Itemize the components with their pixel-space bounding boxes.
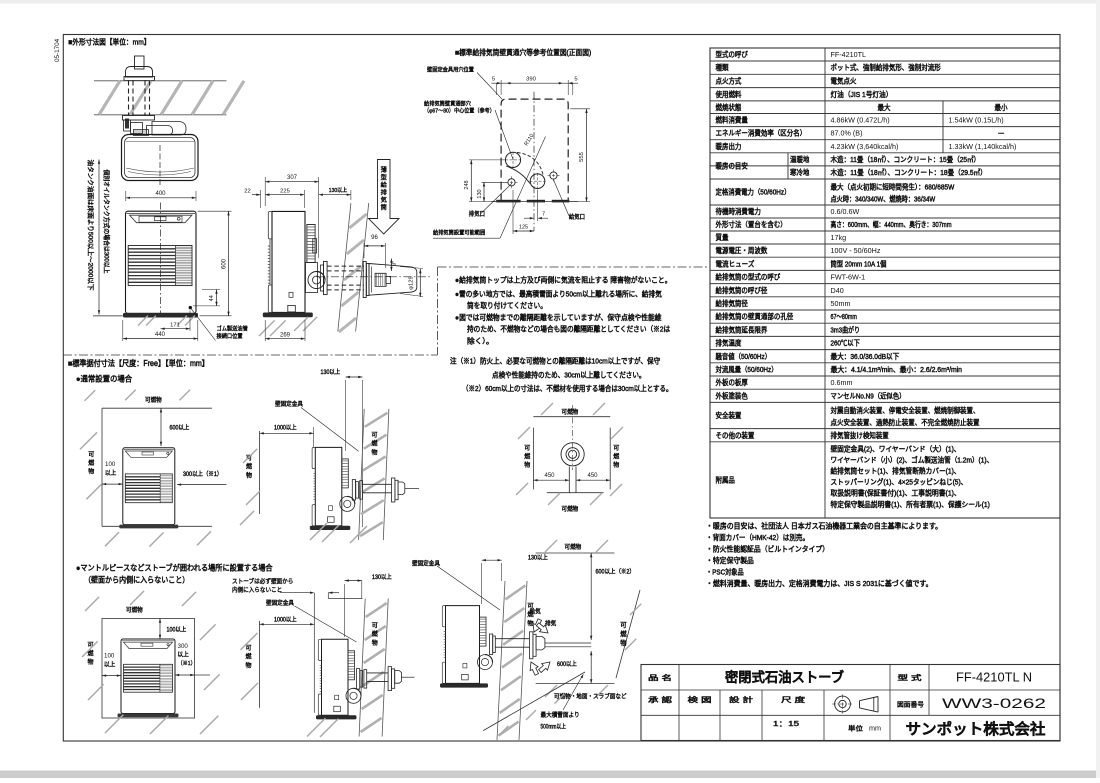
svg-text:品 名: 品 名 [648, 673, 672, 682]
svg-text:171: 171 [170, 323, 180, 329]
svg-text:点火方式: 点火方式 [716, 77, 742, 86]
svg-text:点検や性能維持のため、30cm以上離してください。: 点検や性能維持のため、30cm以上離してください。 [492, 371, 646, 380]
svg-text:・特定保守製品: ・特定保守製品 [706, 555, 754, 565]
svg-text:7: 7 [542, 212, 545, 218]
svg-text:ストーブは必ず壁面から: ストーブは必ず壁面から [232, 578, 293, 586]
svg-text:物: 物 [372, 639, 378, 647]
svg-text:300以上（※1）: 300以上（※1） [183, 470, 222, 478]
svg-text:以上: 以上 [105, 469, 116, 477]
svg-text:燃: 燃 [88, 459, 94, 467]
svg-text:承 認: 承 認 [648, 695, 672, 704]
svg-text:検 図: 検 図 [688, 695, 712, 704]
svg-text:最大（点火初期に短時間発生）：680/685W: 最大（点火初期に短時間発生）：680/685W [831, 182, 955, 191]
svg-text:可: 可 [245, 645, 251, 652]
svg-text:給排気筒設置可能範囲: 給排気筒設置可能範囲 [433, 229, 485, 237]
svg-text:●図では可燃物までの離隔距離を示していますが、保守点検や性能: ●図では可燃物までの離隔距離を示していますが、保守点検や性能維 [455, 313, 662, 322]
svg-text:FF-4210TL N: FF-4210TL N [956, 669, 1032, 684]
svg-text:130以上: 130以上 [321, 368, 341, 376]
svg-text:燃料消費量: 燃料消費量 [716, 116, 748, 125]
svg-text:●給排気筒トップは上方及び両側に気流を阻止する 障害物がない: ●給排気筒トップは上方及び両側に気流を阻止する 障害物がないこと。 [455, 276, 672, 285]
svg-text:燃焼状態: 燃焼状態 [716, 103, 742, 112]
svg-text:除く）。: 除く）。 [467, 337, 494, 346]
svg-text:・防火性能認証品（ビルトインタイプ）: ・防火性能認証品（ビルトインタイプ） [706, 544, 829, 554]
svg-text:壁固定金具: 壁固定金具 [275, 400, 303, 408]
svg-text:定格消費電力（50/60Hz）: 定格消費電力（50/60Hz） [716, 188, 791, 197]
svg-text:100以上: 100以上 [167, 626, 187, 634]
svg-text:125: 125 [519, 225, 528, 231]
svg-text:67〜80mm: 67〜80mm [831, 312, 857, 321]
svg-text:最大積雪面より: 最大積雪面より [541, 711, 580, 719]
svg-text:1.33kW (1,140kcal/h): 1.33kW (1,140kcal/h) [949, 142, 1017, 151]
svg-text:外板塗装色: 外板塗装色 [716, 391, 748, 400]
svg-text:100: 100 [104, 653, 115, 660]
svg-text:物: 物 [245, 661, 251, 669]
svg-text:燃: 燃 [524, 453, 530, 461]
svg-text:ゴム製送油管: ゴム製送油管 [217, 325, 248, 333]
svg-text:給排気筒延長限界: 給排気筒延長限界 [716, 325, 768, 334]
svg-text:D40: D40 [831, 286, 844, 295]
svg-text:筒を取り付けてください。: 筒を取り付けてください。 [467, 301, 547, 310]
svg-text:電流ヒューズ: 電流ヒューズ [716, 259, 755, 268]
svg-text:可: 可 [620, 621, 627, 629]
svg-text:WW3-0262: WW3-0262 [942, 696, 1046, 711]
svg-text:最大：36.0/36.0dB以下: 最大：36.0/36.0dB以下 [831, 352, 900, 361]
svg-text:木造：11畳（18㎡）、コンクリート：15畳（25㎡）: 木造：11畳（18㎡）、コンクリート：15畳（25㎡） [831, 155, 981, 164]
svg-text:・PSC対象品: ・PSC対象品 [706, 567, 744, 577]
svg-text:22: 22 [244, 189, 250, 195]
svg-text:物: 物 [613, 461, 619, 469]
svg-text:暖房出力: 暖房出力 [716, 142, 742, 151]
svg-text:燃: 燃 [613, 453, 619, 461]
svg-text:外板の板厚: 外板の板厚 [716, 378, 748, 387]
svg-text:600以上: 600以上 [557, 660, 577, 668]
svg-text:物: 物 [620, 638, 627, 647]
svg-text:450: 450 [544, 473, 555, 479]
svg-text:給排気筒径: 給排気筒径 [716, 299, 748, 308]
svg-text:100: 100 [105, 461, 116, 468]
svg-text:FWT-6W-1: FWT-6W-1 [831, 273, 866, 282]
svg-text:0.6/0.6W: 0.6/0.6W [831, 207, 860, 216]
svg-text:排気口: 排気口 [469, 210, 485, 218]
svg-text:以上: 以上 [178, 651, 189, 659]
svg-text:可: 可 [372, 623, 378, 630]
svg-text:排: 排 [381, 189, 387, 197]
svg-text:物: 物 [87, 658, 93, 666]
svg-text:型式の呼び: 型式の呼び [716, 50, 748, 59]
svg-text:130: 130 [477, 189, 483, 198]
svg-text:269: 269 [280, 332, 291, 338]
svg-text:待機時消費電力: 待機時消費電力 [716, 207, 761, 216]
svg-text:図面番号: 図面番号 [897, 701, 925, 709]
svg-text:440: 440 [155, 332, 166, 338]
svg-text:型: 型 [381, 174, 387, 182]
svg-text:可燃物: 可燃物 [126, 606, 143, 614]
svg-text:可: 可 [524, 445, 530, 452]
svg-text:薄: 薄 [381, 166, 387, 174]
svg-text:外形寸法（置台を含む）: 外形寸法（置台を含む） [716, 220, 787, 229]
svg-text:−: − [998, 129, 1005, 138]
svg-text:壁固定金具(2)、ワイヤーバンド（大）(1)、: 壁固定金具(2)、ワイヤーバンド（大）(1)、 [831, 444, 961, 453]
svg-text:5: 5 [574, 77, 577, 83]
svg-text:ポット式、強制給排気形、強制対流形: ポット式、強制給排気形、強制対流形 [831, 63, 941, 72]
svg-text:・背面カバー（HMK-42）は別売。: ・背面カバー（HMK-42）は別売。 [706, 532, 809, 542]
svg-text:100V - 50/60Hz: 100V - 50/60Hz [831, 246, 881, 255]
svg-text:燃: 燃 [372, 630, 378, 638]
svg-text:600以上: 600以上 [170, 424, 190, 432]
svg-text:排気温度: 排気温度 [716, 339, 742, 348]
svg-text:給排気筒壁貫通部穴: 給排気筒壁貫通部穴 [424, 100, 471, 108]
svg-text:その他の装置: その他の装置 [716, 431, 755, 440]
svg-text:1：15: 1：15 [773, 721, 799, 728]
svg-text:特定保守製品説明書(1)、所有者票(1)、保護シール(1): 特定保守製品説明書(1)、所有者票(1)、保護シール(1) [831, 500, 990, 509]
svg-text:可燃物・地面・スラブ面など: 可燃物・地面・スラブ面など [554, 693, 627, 701]
svg-text:給排気筒の呼び径: 給排気筒の呼び径 [716, 286, 768, 295]
svg-text:●通常設置の場合: ●通常設置の場合 [76, 374, 132, 384]
svg-text:可燃物: 可燃物 [562, 408, 579, 416]
svg-text:種類: 種類 [716, 63, 730, 72]
svg-text:●雪の多い地方では、最高積雪面より50cm以上離れる場所に、: ●雪の多い地方では、最高積雪面より50cm以上離れる場所に、給排気 [455, 290, 662, 299]
svg-text:ワイヤーバンド（小）(2)、ゴム製送油管（1.2m）(1)、: ワイヤーバンド（小）(2)、ゴム製送油管（1.2m）(1)、 [831, 455, 994, 464]
svg-text:内側に入らないこと: 内側に入らないこと [232, 586, 282, 594]
svg-text:取扱説明書(保証書付)(1)、工事説明書(1)、: 取扱説明書(保証書付)(1)、工事説明書(1)、 [831, 489, 961, 498]
svg-text:可燃物: 可燃物 [562, 505, 579, 513]
svg-text:サンポット株式会社: サンポット株式会社 [906, 721, 1046, 738]
svg-text:・暖房の目安は、社団法人 日本ガス石油機器工業会の自主基準に: ・暖房の目安は、社団法人 日本ガス石油機器工業会の自主基準によります。 [706, 521, 942, 531]
svg-text:500mm以上: 500mm以上 [541, 723, 566, 731]
svg-text:以上: 以上 [104, 661, 115, 669]
svg-text:最小: 最小 [995, 103, 1008, 112]
svg-text:3°: 3° [392, 261, 398, 266]
svg-text:物: 物 [524, 461, 530, 469]
svg-text:密閉式石油ストーブ: 密閉式石油ストーブ [725, 669, 844, 685]
svg-text:17kg: 17kg [831, 233, 847, 242]
svg-text:温暖地: 温暖地 [790, 155, 809, 164]
svg-text:物: 物 [527, 619, 533, 627]
svg-text:可: 可 [613, 445, 619, 452]
svg-text:物: 物 [88, 468, 94, 476]
svg-text:300: 300 [178, 643, 189, 650]
svg-text:450: 450 [587, 473, 598, 479]
svg-text:307: 307 [287, 175, 298, 181]
svg-text:130以上: 130以上 [372, 573, 392, 581]
svg-text:灯油（JIS 1号灯油）: 灯油（JIS 1号灯油） [831, 90, 893, 99]
svg-text:φ129: φ129 [409, 276, 415, 289]
svg-text:壁固定金具: 壁固定金具 [412, 560, 440, 568]
svg-text:（※1）: （※1） [178, 660, 196, 667]
svg-text:87.0% (B): 87.0% (B) [831, 129, 863, 138]
svg-text:130以上: 130以上 [329, 186, 348, 194]
svg-text:尺 度: 尺 度 [781, 695, 805, 704]
svg-text:可燃物: 可燃物 [145, 396, 162, 404]
svg-text:油タンク油面は床面より500以上〜2000以下: 油タンク油面は床面より500以上〜2000以下 [86, 160, 95, 291]
svg-text:排気管抜け検知装置: 排気管抜け検知装置 [831, 431, 889, 440]
svg-text:個別オイルタンク方式の場合は300以上: 個別オイルタンク方式の場合は300以上 [103, 170, 112, 274]
svg-text:44: 44 [209, 295, 215, 301]
svg-text:燃: 燃 [620, 629, 627, 638]
svg-text:■標準据付寸法【尺度：Free】【単位：mm】: ■標準据付寸法【尺度：Free】【単位：mm】 [68, 358, 209, 368]
svg-text:給: 給 [381, 181, 388, 189]
svg-text:高さ：600mm、幅：440mm、奥行き：307mm: 高さ：600mm、幅：440mm、奥行き：307mm [831, 220, 952, 229]
svg-text:4.86kW (0.472L/h): 4.86kW (0.472L/h) [831, 116, 890, 125]
svg-text:持のため、不燃物などの場合も図の離隔距離としてください（※2: 持のため、不燃物などの場合も図の離隔距離としてください（※2は [467, 325, 671, 334]
svg-text:3m3曲がり: 3m3曲がり [831, 325, 860, 334]
svg-text:木造：11畳（18㎡）、コンクリート：18畳（29.5㎡）: 木造：11畳（18㎡）、コンクリート：18畳（29.5㎡） [831, 168, 987, 177]
svg-text:390: 390 [526, 77, 536, 83]
svg-text:気: 気 [381, 196, 387, 204]
svg-text:注（※1）防火上、必要な可燃物との離隔距離は10cm以上です: 注（※1）防火上、必要な可燃物との離隔距離は10cm以上ですが、保守 [450, 357, 660, 366]
svg-text:400: 400 [155, 191, 166, 197]
svg-text:248: 248 [464, 180, 470, 189]
svg-text:0.6mm: 0.6mm [831, 378, 853, 387]
svg-text:物: 物 [246, 471, 252, 479]
svg-text:600: 600 [222, 258, 228, 269]
svg-text:点火安全装置、過熱防止装置、不完全燃焼防止装置: 点火安全装置、過熱防止装置、不完全燃焼防止装置 [831, 418, 980, 427]
svg-text:●マントルピースなどストーブが囲われる場所に設置する場合: ●マントルピースなどストーブが囲われる場所に設置する場合 [76, 563, 273, 573]
svg-text:96: 96 [371, 235, 378, 241]
svg-text:電気点火: 電気点火 [831, 77, 857, 86]
svg-text:mm: mm [869, 724, 881, 733]
svg-text:（φ67〜80）中心位置（参考）: （φ67〜80）中心位置（参考） [424, 107, 495, 115]
svg-text:安全装置: 安全装置 [716, 411, 742, 420]
svg-text:対震自動消火装置、停電安全装置、燃焼制御装置、: 対震自動消火装置、停電安全装置、燃焼制御装置、 [831, 406, 980, 415]
svg-text:最大: 最大 [878, 103, 891, 112]
svg-text:1000以上: 1000以上 [274, 616, 297, 624]
svg-text:05-1704: 05-1704 [54, 38, 61, 62]
svg-text:点火時：340/340W、燃焼時：36/34W: 点火時：340/340W、燃焼時：36/34W [831, 195, 936, 204]
svg-text:給排気筒セット(1)、排気管断熱カバー(1)、: 給排気筒セット(1)、排気管断熱カバー(1)、 [831, 467, 961, 476]
svg-text:555: 555 [579, 152, 585, 162]
svg-text:燃: 燃 [371, 440, 377, 448]
svg-text:質量: 質量 [716, 233, 729, 242]
svg-text:筒: 筒 [381, 204, 387, 212]
svg-text:1000以上: 1000以上 [274, 424, 297, 432]
svg-text:物: 物 [371, 448, 377, 456]
svg-text:設 計: 設 計 [729, 695, 753, 704]
svg-text:型 式: 型 式 [898, 673, 922, 682]
svg-text:壁固定金具: 壁固定金具 [266, 599, 294, 607]
svg-text:給排気筒の壁貫通部の孔径: 給排気筒の壁貫通部の孔径 [716, 312, 794, 321]
svg-text:寒冷地: 寒冷地 [790, 168, 809, 177]
svg-text:ストッパーリング(1)、4×25タッピンねじ(5)、: ストッパーリング(1)、4×25タッピンねじ(5)、 [831, 478, 968, 487]
svg-text:可: 可 [371, 432, 377, 439]
svg-text:暖房の目安: 暖房の目安 [716, 162, 748, 171]
svg-text:FF-4210TL: FF-4210TL [831, 50, 867, 59]
svg-text:給排気筒の型式の呼び: 給排気筒の型式の呼び [716, 273, 781, 282]
svg-text:燃: 燃 [246, 463, 252, 471]
svg-text:（壁面から内側に入らないこと）: （壁面から内側に入らないこと） [84, 575, 189, 585]
svg-text:附属品: 附属品 [716, 476, 735, 485]
svg-text:50mm: 50mm [831, 299, 851, 308]
svg-text:対流風量（50/60Hz）: 対流風量（50/60Hz） [716, 365, 778, 374]
svg-text:（※2）60cm以上の寸法は、不燃材を使用する場合は30cm: （※2）60cm以上の寸法は、不燃材を使用する場合は30cm以上とする。 [462, 384, 673, 393]
svg-text:■標準給排気筒壁貫通穴等参考位置図(正面図): ■標準給排気筒壁貫通穴等参考位置図(正面図) [455, 48, 591, 57]
svg-text:260℃以下: 260℃以下 [831, 339, 860, 348]
svg-text:225: 225 [280, 189, 290, 195]
svg-text:600以上（※2）: 600以上（※2） [596, 568, 635, 576]
svg-text:壁固定金具用穴位置: 壁固定金具用穴位置 [427, 66, 474, 74]
svg-text:接続口位置: 接続口位置 [217, 332, 243, 340]
svg-text:可: 可 [88, 452, 94, 459]
svg-text:電源電圧・周波数: 電源電圧・周波数 [716, 246, 768, 255]
svg-text:最大：4.1/4.1m³/min、最小：2.6/2.6m³/: 最大：4.1/4.1m³/min、最小：2.6/2.6m³/min [831, 365, 963, 374]
svg-text:燃: 燃 [245, 653, 251, 661]
svg-text:・燃料消費量、暖房出力、定格消費電力は、JIS S 2031: ・燃料消費量、暖房出力、定格消費電力は、JIS S 2031に基づく値です。 [706, 578, 933, 588]
svg-text:単位: 単位 [848, 724, 864, 733]
svg-text:130以上: 130以上 [528, 554, 548, 562]
svg-text:給気口: 給気口 [569, 213, 585, 221]
svg-text:排気: 排気 [545, 620, 556, 628]
svg-text:使用燃料: 使用燃料 [716, 90, 742, 99]
svg-text:5: 5 [492, 77, 495, 83]
svg-text:エネルギー消費効率（区分名）: エネルギー消費効率（区分名） [716, 129, 807, 138]
svg-text:マンセルNo.N9（近似色）: マンセルNo.N9（近似色） [831, 391, 906, 400]
svg-text:1.54kW (0.15L/h): 1.54kW (0.15L/h) [949, 116, 1004, 125]
svg-text:騒音値（50/60Hz）: 騒音値（50/60Hz） [716, 352, 772, 361]
svg-text:■外形寸法図【単位：mm】: ■外形寸法図【単位：mm】 [68, 36, 150, 46]
svg-text:可燃物: 可燃物 [565, 543, 582, 551]
svg-text:4.23kW (3,640kcal/h): 4.23kW (3,640kcal/h) [831, 142, 899, 151]
svg-text:給気: 給気 [530, 608, 541, 616]
svg-text:筒型 20mm 10A 1個: 筒型 20mm 10A 1個 [831, 259, 887, 268]
